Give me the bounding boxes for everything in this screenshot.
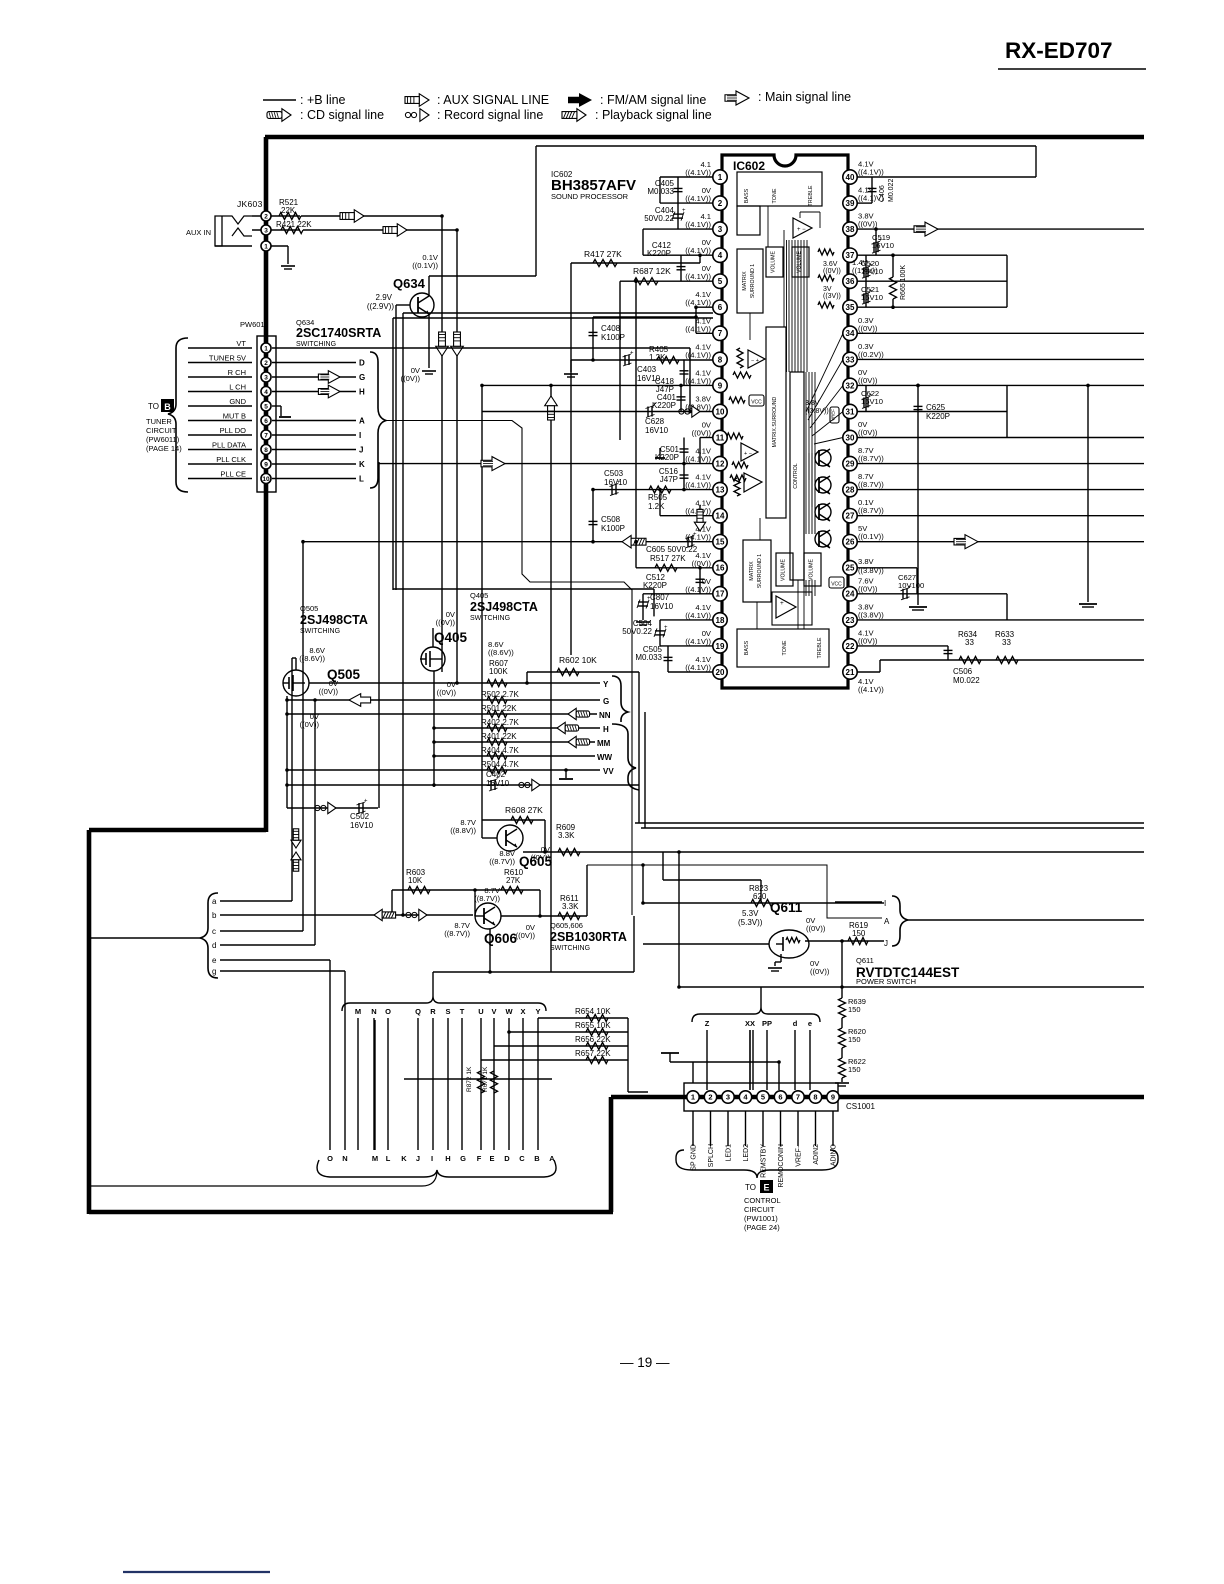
svg-text:28: 28: [846, 485, 855, 494]
node CS1001 pin 1: [687, 1091, 699, 1103]
svg-text:((0.1V)): ((0.1V)): [858, 532, 884, 541]
svg-text:H: H: [603, 725, 609, 734]
svg-text:Y: Y: [535, 1007, 540, 1016]
op-amp internal pin13: [744, 473, 762, 492]
wire d riser: [314, 700, 316, 945]
brace PW601 letters: [370, 352, 386, 488]
svg-text:H: H: [445, 1154, 450, 1163]
connector CS1001 body: [684, 1083, 838, 1111]
node IC602 pin 20: [713, 665, 727, 679]
wire pin4: [643, 254, 713, 256]
block BASS TONE TREBLE bottom: [737, 629, 829, 667]
svg-text:((0V)): ((0V)): [858, 584, 878, 593]
transistor internal pin27: [815, 504, 831, 520]
svg-text:29: 29: [846, 459, 855, 468]
wire PW601 to node K: [272, 463, 356, 465]
svg-text:((3V)): ((3V)): [823, 293, 841, 300]
node IC602 pin 34: [843, 326, 857, 340]
svg-text:6: 6: [778, 1093, 782, 1102]
wire pin6: [696, 306, 713, 308]
wire +B middle-left horizontal: [89, 828, 266, 833]
svg-text:((0V)): ((0V)): [692, 429, 712, 438]
node IC602 pin 14: [713, 509, 727, 523]
svg-text:1: 1: [691, 1093, 695, 1102]
wire pin38 long: [857, 228, 1144, 230]
node PW601 pin 7 PLL DO: [188, 434, 252, 436]
svg-text:((4.1V)): ((4.1V)): [685, 611, 711, 620]
node CS1001 pin 5: [757, 1091, 769, 1103]
ground CS1001 left: [661, 1052, 679, 1054]
svg-text:R654 10K: R654 10K: [575, 1007, 611, 1016]
legend Record signal line: [405, 109, 429, 122]
wire PW601 to node D: [272, 362, 356, 364]
node IC602 pin 10: [713, 404, 727, 418]
svg-text:1.2K: 1.2K: [648, 502, 665, 511]
svg-text:((4.1V)): ((4.1V)): [685, 376, 711, 385]
wire pin22: [857, 645, 948, 647]
block MATRIX SURROUND 1 upper: [737, 249, 763, 313]
svg-text:50V0.22: 50V0.22: [644, 214, 674, 223]
svg-text:150: 150: [852, 929, 866, 938]
brace ladder lower: [612, 724, 639, 790]
svg-text:((4.1V)): ((4.1V)): [685, 350, 711, 359]
capacitor C406 M0.022: [857, 202, 872, 204]
svg-text:B: B: [534, 1154, 540, 1163]
svg-text:3.6V: 3.6V: [823, 261, 838, 268]
svg-text:21: 21: [846, 668, 855, 677]
svg-text:N: N: [371, 1007, 376, 1016]
wire pin34 long: [857, 332, 1144, 334]
svg-text:K220P: K220P: [926, 412, 950, 421]
svg-text:POWER SWITCH: POWER SWITCH: [856, 977, 916, 986]
svg-text:27K: 27K: [506, 876, 521, 885]
wire node A to Q606 region: [386, 421, 632, 916]
svg-text:SWITCHING: SWITCHING: [300, 628, 340, 635]
svg-text:((0V)): ((0V)): [319, 687, 339, 696]
svg-text:TUNER 5V: TUNER 5V: [209, 354, 246, 363]
svg-text:Z: Z: [705, 1019, 710, 1028]
svg-text:LED1: LED1: [726, 1144, 733, 1162]
node IC602 pin 36: [843, 274, 857, 288]
svg-text:+: +: [496, 776, 500, 782]
svg-text:15: 15: [716, 538, 725, 547]
resistor internal pin36: [818, 275, 834, 281]
ladder verticals: [357, 1018, 359, 1150]
op-amp internal pin11: [741, 443, 758, 461]
wire y972: [433, 971, 634, 973]
svg-text:K: K: [359, 460, 365, 469]
svg-text:(PAGE 24): (PAGE 24): [744, 1223, 780, 1232]
node IC602 pin 3: [713, 222, 727, 236]
svg-text:TREBLE: TREBLE: [808, 185, 814, 206]
svg-text:ADINO: ADINO: [831, 1143, 838, 1166]
svg-text:M0.033: M0.033: [635, 653, 662, 662]
node IC602 pin 15: [713, 535, 727, 549]
svg-text:50V0.22: 50V0.22: [622, 627, 652, 636]
block BASS TONE TREBLE top: [737, 172, 822, 206]
svg-text:K100P: K100P: [601, 333, 625, 342]
node IC602 pin 11: [713, 430, 727, 444]
svg-text:R657 22K: R657 22K: [575, 1049, 611, 1058]
svg-text:+: +: [869, 263, 873, 269]
svg-text:4: 4: [264, 389, 268, 396]
svg-text:2.9V: 2.9V: [376, 293, 393, 302]
svg-text:VV: VV: [603, 767, 614, 776]
wire g: [220, 970, 345, 972]
svg-text:((8.7V)): ((8.7V)): [858, 480, 884, 489]
wire Q606 base feed: [474, 890, 476, 916]
svg-text:C508: C508: [601, 515, 621, 524]
wire bus v636: [635, 281, 637, 542]
wire aux L to x442: [301, 215, 442, 217]
node CS1001 pin 7: [792, 1091, 804, 1103]
svg-text:− +: − +: [751, 358, 759, 364]
op-amp internal lower: [776, 596, 796, 618]
svg-text:31: 31: [846, 407, 855, 416]
svg-text:TONE: TONE: [782, 640, 788, 655]
svg-text:X: X: [520, 1007, 525, 1016]
svg-text:1: 1: [264, 243, 268, 250]
svg-text:33: 33: [965, 638, 974, 647]
op-amp internal top: [793, 218, 812, 238]
brace a-g group: [200, 893, 218, 978]
wire bus v551: [550, 386, 552, 972]
node IC602 pin 6: [713, 300, 727, 314]
svg-text:: +B line: : +B line: [300, 93, 346, 107]
label CS1001 VREF−: [797, 1111, 799, 1146]
svg-text:((0V)): ((0V)): [806, 924, 826, 933]
svg-text:R517 27K: R517 27K: [650, 554, 686, 563]
wire ladder bus v639: [638, 672, 640, 823]
svg-text:+: +: [879, 238, 883, 244]
svg-text:S: S: [445, 1007, 450, 1016]
svg-text:G: G: [359, 373, 365, 382]
node IC602 pin 24: [843, 587, 857, 601]
svg-text:BASS: BASS: [744, 640, 750, 655]
svg-text:M: M: [372, 1154, 378, 1163]
node IC602 pin 29: [843, 456, 857, 470]
svg-text:11: 11: [716, 433, 725, 442]
svg-text:G: G: [460, 1154, 466, 1163]
wire v1007 upper: [1006, 255, 1008, 307]
wire e drop: [329, 960, 331, 1150]
svg-text:BASS: BASS: [744, 188, 750, 203]
node CS1001 pin 4: [739, 1091, 751, 1103]
svg-text:((0.2V)): ((0.2V)): [858, 350, 884, 359]
svg-text:VCC: VCC: [831, 582, 842, 588]
footer rule: [123, 1571, 270, 1573]
svg-text:Q606: Q606: [484, 931, 518, 946]
node CS1001 pin 9: [827, 1091, 839, 1103]
svg-text:2: 2: [708, 1093, 712, 1102]
svg-text:((0V)): ((0V)): [823, 268, 841, 275]
svg-text:3.3K: 3.3K: [558, 831, 575, 840]
svg-text:10K: 10K: [408, 876, 423, 885]
svg-text:((4.1V)): ((4.1V)): [685, 455, 711, 464]
svg-text:TO: TO: [148, 402, 159, 411]
svg-text:M0.022: M0.022: [888, 179, 895, 202]
svg-text:2: 2: [264, 360, 268, 367]
wire q606 junction riser: [678, 852, 680, 987]
svg-text:R421 22K: R421 22K: [276, 220, 312, 229]
svg-text:1: 1: [264, 345, 268, 352]
wire b long: [220, 914, 473, 916]
svg-text:+: +: [780, 600, 784, 607]
svg-text:4: 4: [718, 251, 723, 260]
svg-text:9: 9: [718, 381, 723, 390]
svg-text:((0V)): ((0V)): [858, 636, 878, 645]
wire bus h589: [393, 588, 654, 590]
svg-text:V: V: [491, 1007, 496, 1016]
wire group feed: [89, 937, 200, 939]
svg-text:((8.7V)): ((8.7V)): [444, 929, 470, 938]
wire Q505 drain bus: [286, 696, 288, 808]
svg-text:VOLUME: VOLUME: [809, 559, 815, 581]
wire aux R to x457: [303, 229, 457, 231]
wire pin13 with R505: [593, 489, 713, 491]
node JK603 pin 1: [261, 241, 271, 251]
wire aux L vertical: [441, 216, 443, 672]
wire Q634 collector riser: [535, 146, 537, 276]
svg-text:+: +: [630, 351, 634, 357]
svg-text:7: 7: [264, 432, 268, 439]
wire Q634 base: [396, 304, 410, 306]
svg-text:D: D: [359, 359, 365, 368]
label CS1001 ADINO: [832, 1111, 834, 1146]
wire Q611 base node: [642, 865, 644, 903]
svg-text:: CD signal line: : CD signal line: [300, 108, 384, 122]
svg-text:CONTROL: CONTROL: [744, 1196, 781, 1205]
svg-text:((0V)): ((0V)): [858, 376, 878, 385]
svg-text:((0V)): ((0V)): [516, 931, 536, 940]
node CS1001 pin 2: [704, 1091, 716, 1103]
svg-text:(PAGE 14): (PAGE 14): [146, 444, 182, 453]
svg-text:10: 10: [716, 407, 725, 416]
brace TO B tuner circuit: [168, 338, 188, 492]
svg-text:E: E: [763, 1183, 769, 1193]
capacitor C508 K100P: [592, 490, 594, 542]
node PW601 pin 9 PLL CLK: [188, 463, 252, 465]
svg-text:R504 4.7K: R504 4.7K: [481, 760, 519, 769]
block VCC upper: [749, 395, 764, 406]
node IC602 pin 30: [843, 430, 857, 444]
svg-text:((4.1V)): ((4.1V)): [858, 685, 884, 694]
svg-text:PLL DO: PLL DO: [220, 426, 247, 435]
legend FM/AM signal line: [568, 93, 592, 107]
node JK603 pin 3: [252, 229, 300, 231]
svg-text:CIRCUIT: CIRCUIT: [146, 426, 177, 435]
svg-text:K100P: K100P: [601, 524, 625, 533]
node IC602 pin 19: [713, 639, 727, 653]
node IC602 pin 4: [713, 248, 727, 262]
svg-text:((4.1V)): ((4.1V)): [685, 246, 711, 255]
svg-text:24: 24: [846, 590, 855, 599]
svg-text:A: A: [884, 917, 890, 926]
svg-text:40: 40: [846, 173, 855, 182]
node IC602 pin 18: [713, 613, 727, 627]
block VCC lower: [829, 577, 844, 588]
wire vref branch: [693, 1061, 779, 1063]
svg-text:((4.1V)): ((4.1V)): [858, 168, 884, 177]
svg-text:3: 3: [726, 1093, 730, 1102]
svg-text:R665 100K: R665 100K: [900, 265, 907, 300]
svg-text:e: e: [212, 956, 217, 965]
svg-text:3V: 3V: [823, 286, 832, 293]
svg-text:((0V)): ((0V)): [436, 618, 456, 627]
svg-text:JK603: JK603: [237, 199, 263, 209]
node IC602 pin 32: [843, 378, 857, 392]
block VREF internal: [830, 407, 839, 423]
node PW601 pin 3 R CH: [188, 376, 252, 378]
svg-text:38: 38: [846, 225, 855, 234]
svg-text:((4.1V)): ((4.1V)): [685, 324, 711, 333]
label CS1001 LED2: [745, 1111, 747, 1146]
resistor internal pin12a: [732, 462, 748, 468]
ground at PW601 pin5: [272, 405, 281, 407]
svg-text:((8.8V)): ((8.8V)): [450, 826, 476, 835]
wire c riser: [302, 542, 304, 931]
wire PW601 to node I: [272, 434, 356, 436]
svg-text:WW: WW: [597, 753, 613, 762]
svg-text:6: 6: [718, 303, 723, 312]
svg-text:REMOCONIN: REMOCONIN: [778, 1144, 785, 1188]
node IC602 pin 17: [713, 587, 727, 601]
wire PW601 to node A: [272, 420, 356, 422]
node IC602 pin 23: [843, 613, 857, 627]
wire PW601 to node H: [272, 391, 356, 393]
svg-text:d: d: [793, 1019, 798, 1028]
svg-text:H: H: [359, 388, 365, 397]
svg-text:32: 32: [846, 381, 855, 390]
wire pin3: [643, 228, 713, 230]
svg-text:16V10: 16V10: [645, 426, 669, 435]
wire ladder bus v645: [644, 712, 646, 828]
svg-text:C406: C406: [879, 185, 886, 202]
svg-text:26: 26: [846, 538, 855, 547]
svg-text:((0V)): ((0V)): [692, 559, 712, 568]
label CS1001 REMSTBY: [762, 1111, 764, 1146]
ground R622: [835, 1082, 849, 1084]
svg-text:U: U: [478, 1007, 483, 1016]
label CS1001 REMOCONIN: [780, 1111, 782, 1146]
legend AUX SIGNAL LINE symbol: [405, 94, 429, 107]
svg-text:+: +: [682, 208, 686, 214]
svg-text:((0V)): ((0V)): [858, 428, 878, 437]
block MATRIX SURROUND 1 lower: [743, 540, 771, 602]
wire PW601 to node L: [272, 478, 356, 480]
wire v1007 mid: [1006, 385, 1008, 437]
node IC602 pin 21: [843, 665, 857, 679]
svg-text:22: 22: [846, 642, 855, 651]
node IC602 pin 31: [843, 404, 857, 418]
svg-text:3: 3: [718, 225, 723, 234]
svg-text:((8.7V)): ((8.7V)): [474, 894, 500, 903]
svg-text:150: 150: [848, 1035, 861, 1044]
svg-text:+: +: [693, 532, 697, 538]
wire ladder crossbar: [404, 1078, 552, 1080]
transistor internal pin26: [815, 531, 831, 547]
svg-text:SPLCH: SPLCH: [708, 1144, 715, 1167]
svg-text:a: a: [212, 897, 217, 906]
node PW601 pin 10 PLL CE: [188, 478, 252, 480]
wire pin36: [857, 280, 1007, 282]
svg-text:ADIN2: ADIN2: [813, 1144, 820, 1165]
svg-text:K: K: [401, 1154, 407, 1163]
svg-text:C502: C502: [350, 812, 370, 821]
node JK603 pin 2: [252, 215, 300, 217]
wire +B bottom horizontal: [89, 1210, 613, 1215]
svg-text:R505: R505: [648, 493, 668, 502]
wire pin7: [696, 332, 713, 334]
svg-text:Q405: Q405: [434, 630, 468, 645]
node PW601 pin 8 PLL DATA: [188, 449, 252, 451]
wire pin10: [482, 411, 713, 413]
svg-text:((4.1V)): ((4.1V)): [685, 298, 711, 307]
svg-text:16V10: 16V10: [350, 821, 374, 830]
resistor internal pin9: [733, 372, 751, 378]
svg-text:N: N: [342, 1154, 347, 1163]
resistor internal pin13: [734, 478, 740, 496]
svg-text:((2.9V)): ((2.9V)): [367, 302, 394, 311]
resistor internal pin12b: [730, 475, 746, 481]
node IC602 pin 39: [843, 196, 857, 210]
svg-text:+: +: [664, 625, 668, 631]
svg-text:+: +: [908, 584, 912, 590]
wire Q606 out: [501, 915, 587, 917]
block CONTROL tall: [790, 372, 804, 580]
legend Main signal line: [725, 91, 749, 105]
svg-text:R655 10K: R655 10K: [575, 1021, 611, 1030]
svg-text:2SJ498CTA: 2SJ498CTA: [470, 600, 538, 614]
capacitor C625 K220P: [917, 385, 919, 605]
svg-text:b: b: [212, 911, 217, 920]
svg-text:150: 150: [848, 1065, 861, 1074]
capacitor C404 50V0.22: [677, 203, 679, 229]
svg-text:((4.1V)): ((4.1V)): [685, 220, 711, 229]
brace Z XX PP d e: [692, 1007, 820, 1022]
node CS1001 pin 8: [809, 1091, 821, 1103]
brace ladder bottom: [317, 1160, 556, 1177]
svg-text:K220P: K220P: [643, 581, 667, 590]
resistor chain R639 R620 R622: [841, 941, 843, 998]
svg-text:23: 23: [846, 616, 855, 625]
svg-text:12: 12: [716, 459, 725, 468]
node IC602 pin 22: [843, 639, 857, 653]
svg-text:+: +: [869, 289, 873, 295]
svg-text:C625: C625: [926, 403, 946, 412]
svg-text:R: R: [430, 1007, 436, 1016]
svg-text:((4.1V)): ((4.1V)): [685, 637, 711, 646]
capacitor C628 16V10 (electrolytic): [647, 407, 649, 417]
wire v1088 ground branch: [1087, 385, 1089, 602]
wire Q611 collector to J: [805, 940, 884, 942]
svg-text:VT: VT: [236, 339, 246, 348]
svg-text:M0.033: M0.033: [647, 187, 674, 196]
svg-text:((4.1V)): ((4.1V)): [685, 663, 711, 672]
svg-text:39: 39: [846, 199, 855, 208]
svg-text:16: 16: [716, 564, 725, 573]
wire pin16 with R517: [636, 567, 713, 569]
wire ladder bottom feed: [89, 1172, 437, 1186]
svg-text:R602 10K: R602 10K: [559, 655, 597, 665]
svg-text:2: 2: [264, 213, 268, 220]
svg-text:VOLUME: VOLUME: [797, 251, 803, 273]
svg-text:(PW1001): (PW1001): [744, 1214, 778, 1223]
svg-text:6: 6: [264, 418, 268, 425]
svg-text:((8.7V)): ((8.7V)): [858, 506, 884, 515]
capacitor C405 M0.033: [677, 177, 679, 203]
svg-text:C403: C403: [637, 365, 657, 374]
